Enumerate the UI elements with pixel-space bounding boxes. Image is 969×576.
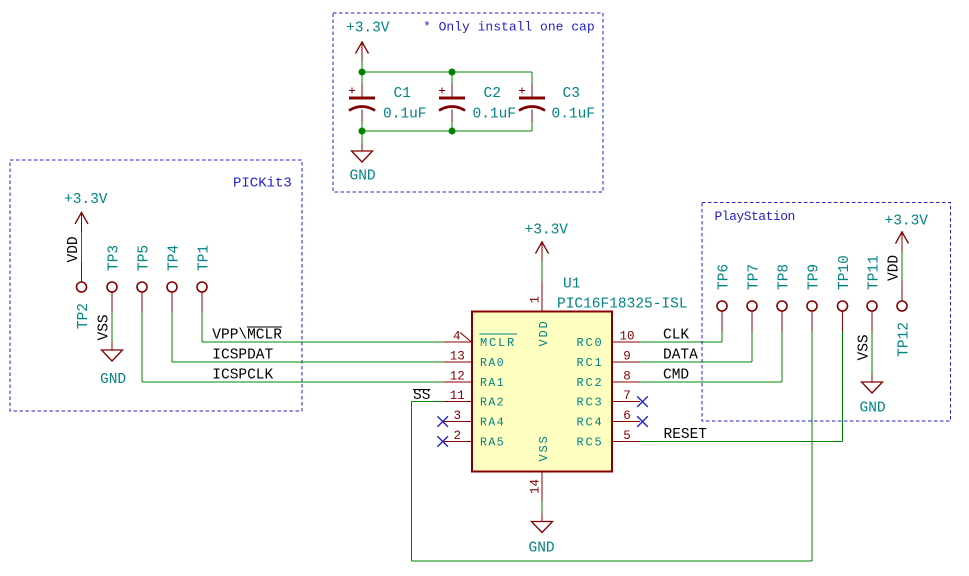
svg-text:C2: C2 [484,86,501,102]
svg-text:TP6: TP6 [716,264,732,290]
svg-text:U1: U1 [563,277,580,293]
svg-text:RA0: RA0 [480,357,505,370]
svg-text:GND: GND [529,541,555,557]
svg-text:RC3: RC3 [576,396,603,410]
svg-text:RC0: RC0 [576,336,603,350]
svg-text:ICSPDAT: ICSPDAT [212,348,273,364]
svg-text:DATA: DATA [663,348,698,364]
svg-text:6: 6 [623,409,631,423]
svg-text:+3.3V: +3.3V [346,21,390,37]
svg-text:VDD: VDD [887,255,903,281]
svg-text:VSS: VSS [97,314,113,340]
svg-text:11: 11 [450,389,465,403]
svg-text:TP12: TP12 [896,322,912,357]
svg-text:5: 5 [623,429,631,443]
svg-text:RA5: RA5 [480,437,505,450]
svg-text:SS: SS [413,388,430,404]
svg-text:0.1uF: 0.1uF [473,106,517,122]
svg-text:* Only install one cap: * Only install one cap [423,20,595,35]
svg-text:14: 14 [529,479,543,494]
svg-text:MCLR: MCLR [480,336,516,350]
svg-text:0.1uF: 0.1uF [383,106,427,122]
svg-text:7: 7 [623,389,631,403]
svg-text:GND: GND [100,372,126,388]
svg-text:0.1uF: 0.1uF [552,106,596,122]
svg-text:RC1: RC1 [576,356,603,370]
svg-text:TP7: TP7 [746,264,762,290]
svg-text:CMD: CMD [663,367,689,383]
svg-text:RA2: RA2 [480,397,505,410]
svg-text:TP11: TP11 [866,255,882,290]
svg-text:8: 8 [623,369,631,383]
svg-text:TP2: TP2 [76,303,92,329]
svg-text:9: 9 [623,350,631,364]
svg-text:TP4: TP4 [166,245,182,271]
svg-text:+3.3V: +3.3V [885,214,929,230]
svg-text:PICKit3: PICKit3 [233,176,292,192]
svg-text:VPP\MCLR: VPP\MCLR [212,328,282,344]
svg-text:13: 13 [450,350,465,364]
svg-text:3: 3 [454,409,462,423]
svg-text:RC5: RC5 [576,436,603,450]
svg-text:PIC16F18325-ISL: PIC16F18325-ISL [557,297,688,313]
svg-text:RA1: RA1 [480,377,505,390]
svg-text:4: 4 [453,330,461,344]
svg-text:12: 12 [450,369,465,383]
svg-text:VDD: VDD [537,319,551,346]
svg-text:10: 10 [619,330,634,344]
svg-text:RC2: RC2 [576,376,603,390]
svg-text:CLK: CLK [663,328,689,344]
svg-text:TP8: TP8 [776,264,792,290]
svg-text:GND: GND [860,401,886,417]
svg-text:RESET: RESET [664,427,708,443]
svg-text:TP9: TP9 [806,264,822,290]
svg-text:RA4: RA4 [480,417,505,430]
svg-text:C3: C3 [563,86,580,102]
svg-text:RC4: RC4 [576,416,603,430]
svg-text:ICSPCLK: ICSPCLK [212,367,273,383]
svg-text:TP1: TP1 [196,245,212,271]
svg-text:PlayStation: PlayStation [715,209,795,224]
svg-text:GND: GND [350,169,376,185]
svg-text:2: 2 [454,429,462,443]
svg-text:TP5: TP5 [136,245,152,271]
svg-text:TP3: TP3 [106,245,122,271]
svg-text:C1: C1 [394,86,411,102]
svg-text:1: 1 [529,296,543,304]
svg-text:VDD: VDD [66,236,82,262]
svg-text:VSS: VSS [537,434,551,461]
svg-text:TP10: TP10 [837,255,853,290]
svg-text:VSS: VSS [857,334,873,360]
svg-text:+3.3V: +3.3V [525,223,569,239]
svg-text:+3.3V: +3.3V [64,192,108,208]
